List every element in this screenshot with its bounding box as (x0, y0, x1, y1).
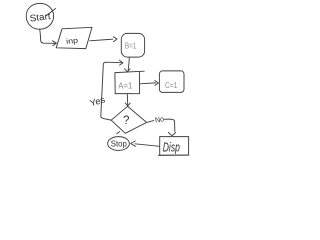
svg-text:A=1: A=1 (118, 80, 132, 90)
wire Disp to Stop (131, 141, 160, 146)
wire Yes loop back (101, 60, 123, 120)
wire Inp to B (90, 37, 117, 42)
svg-text:Start: Start (29, 11, 52, 25)
terminator Stop (108, 132, 130, 151)
decision diamond ? (111, 106, 146, 133)
wire A to decision (125, 94, 130, 106)
process box A=1 (115, 71, 144, 94)
svg-text:Disp: Disp (163, 141, 180, 155)
svg-text:Yes: Yes (89, 94, 107, 108)
wire B to A (124, 58, 130, 72)
process box Disp (159, 137, 189, 156)
process box C=1 (159, 71, 184, 93)
svg-text:No: No (154, 114, 164, 124)
svg-text:Stop: Stop (111, 138, 127, 148)
svg-text:?: ? (123, 115, 129, 127)
svg-text:C=1: C=1 (165, 80, 178, 90)
wire No branch to Disp (147, 119, 176, 136)
process box B=1 (121, 33, 144, 57)
wire A to C (140, 81, 158, 86)
wire Start to Inp (40, 29, 57, 45)
io parallelogram Inp (56, 27, 92, 48)
svg-text:B=1: B=1 (125, 42, 137, 51)
svg-text:inp: inp (66, 36, 79, 46)
terminator Start (26, 3, 55, 29)
